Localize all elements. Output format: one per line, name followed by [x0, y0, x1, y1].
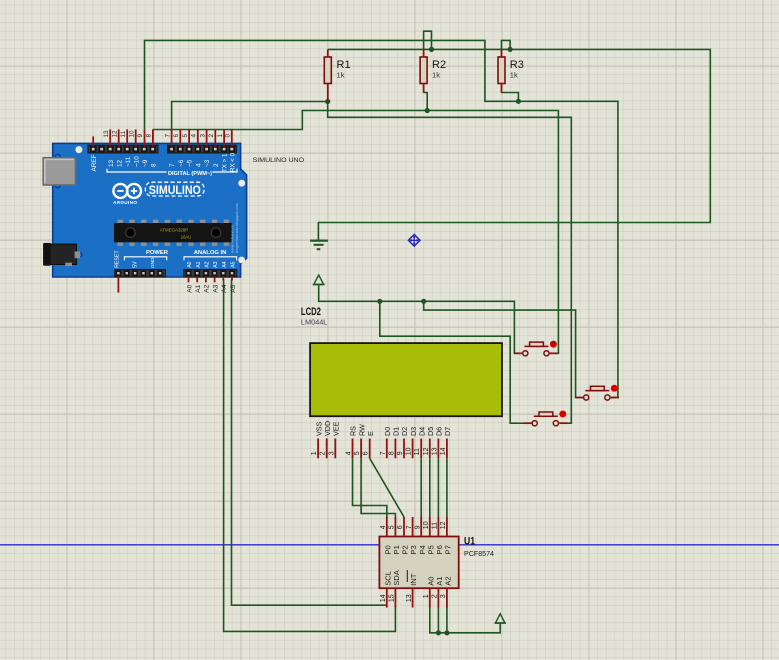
- wire: LCD D6 to U1 P6: [437, 458, 439, 517]
- power arrow (VCC) near U1: [495, 614, 506, 623]
- svg-text:11: 11: [120, 130, 127, 137]
- svg-text:R1: R1: [337, 59, 351, 71]
- svg-text:10: 10: [423, 521, 430, 529]
- svg-text:9: 9: [414, 525, 421, 529]
- svg-text:~5: ~5: [187, 159, 194, 167]
- wire: U1 A1 stub to net: [437, 608, 439, 633]
- svg-text:A1: A1: [196, 261, 202, 267]
- junction at R1 bottom: [325, 99, 330, 104]
- Arduino SIMULINO UNO board: [53, 143, 247, 277]
- svg-text:1k: 1k: [337, 70, 345, 79]
- power jack: [44, 243, 81, 266]
- wire: R2 bottom jog: [424, 93, 428, 111]
- SIMULINO title: [145, 182, 204, 197]
- DIGITAL (PWM~) bracket: [107, 168, 237, 177]
- svg-text:R2: R2: [432, 59, 446, 71]
- svg-text:6: 6: [363, 451, 370, 455]
- wire: pin 7 net (Arduino D7 to R1 bottom and button3 right): [172, 102, 328, 130]
- svg-text:13: 13: [431, 447, 438, 455]
- U1 bottom pin numbers: [380, 594, 447, 602]
- svg-text:PCF8574: PCF8574: [464, 549, 494, 558]
- svg-text:11: 11: [414, 448, 421, 455]
- junction at R2 bottom: [425, 108, 430, 113]
- svg-text:2: 2: [208, 134, 215, 138]
- wire: VCC drop to button2 left: [424, 301, 583, 397]
- svg-text:A0: A0: [186, 284, 193, 292]
- wire: R3 top hop: [502, 40, 511, 49]
- svg-text:VEE: VEE: [332, 421, 341, 436]
- junction at R3 bottom: [516, 99, 521, 104]
- svg-text:A3: A3: [213, 261, 219, 267]
- junction VCC/button3: [377, 299, 382, 304]
- svg-text:GND: GND: [150, 257, 155, 268]
- svg-text:P7: P7: [444, 545, 453, 554]
- svg-text:~3: ~3: [204, 159, 211, 167]
- svg-text:10: 10: [129, 130, 136, 138]
- push button 1 (top): [514, 341, 558, 356]
- svg-text:5V: 5V: [133, 261, 139, 268]
- svg-text:2: 2: [213, 163, 220, 167]
- svg-text:14: 14: [380, 594, 387, 602]
- svg-text:A3: A3: [212, 284, 219, 292]
- svg-text:1: 1: [217, 134, 224, 138]
- wire: LCD RS to U1 P0: [353, 458, 387, 517]
- board web text: [229, 203, 239, 253]
- svg-text:RESET: RESET: [114, 250, 120, 268]
- wire: ground net along resistor tops: [318, 49, 710, 240]
- digital pin numbers (black, above board): [103, 130, 232, 138]
- svg-text:8: 8: [146, 134, 153, 138]
- svg-text:16AU: 16AU: [181, 234, 191, 239]
- U1 chip body PCF8574: [379, 537, 458, 589]
- svg-text:SIMULINO UNO: SIMULINO UNO: [253, 157, 305, 164]
- svg-text:12: 12: [116, 159, 123, 167]
- wire: LCD RW to U1 P1: [361, 458, 395, 517]
- wire: pin 7 net continuation east: [328, 102, 572, 424]
- power arrow (VCC) near LCD: [313, 275, 325, 285]
- LCD pin names: [314, 421, 452, 436]
- resistor R3 1k: [498, 49, 524, 93]
- svg-text:~10: ~10: [133, 156, 140, 167]
- U1 bottom pin names SCL SDA INT A0 A1 A2: [383, 569, 452, 586]
- svg-text:blogembarcado.blogspot.com: blogembarcado.blogspot.com: [235, 203, 239, 253]
- svg-text:5: 5: [354, 451, 361, 455]
- svg-text:~11: ~11: [125, 156, 132, 167]
- svg-text:10: 10: [406, 447, 413, 455]
- digital pin numbers (white, on board): [108, 152, 237, 172]
- wire: LCD E to U1 P2 (diagonal): [370, 458, 404, 517]
- svg-text:2: 2: [432, 594, 439, 598]
- U1 bottom pin stubs: [387, 588, 447, 607]
- svg-text:8: 8: [150, 163, 157, 167]
- svg-text:ATMEGA328P: ATMEGA328P: [160, 228, 189, 233]
- svg-text:6: 6: [173, 134, 180, 138]
- analog pin stubs: [189, 277, 233, 283]
- digital pin stubs top: [93, 129, 232, 146]
- wire: A4 / SDA net: [224, 280, 396, 632]
- RESET pin stub: [117, 277, 119, 293]
- svg-text:13: 13: [108, 159, 115, 167]
- svg-text:5: 5: [182, 134, 189, 138]
- svg-text:4: 4: [191, 134, 198, 138]
- push button 2 (right): [575, 385, 619, 400]
- svg-text:A2: A2: [444, 577, 453, 586]
- svg-text:INT: INT: [409, 573, 418, 586]
- junction at R2 top: [429, 47, 434, 52]
- svg-text:AREF: AREF: [91, 154, 98, 171]
- svg-text:6: 6: [397, 525, 404, 529]
- svg-text:3: 3: [440, 594, 447, 598]
- svg-text:7: 7: [380, 451, 387, 455]
- svg-text:7: 7: [164, 134, 171, 138]
- svg-text:1: 1: [311, 451, 318, 455]
- svg-text:8: 8: [388, 451, 395, 455]
- svg-text:A4: A4: [222, 261, 228, 267]
- svg-text:4: 4: [380, 525, 387, 529]
- svg-text:11: 11: [432, 522, 439, 529]
- svg-text:2: 2: [320, 451, 327, 455]
- svg-text:A2: A2: [205, 261, 211, 267]
- wire: LCD D7 to U1 P7: [446, 458, 448, 517]
- svg-text:1: 1: [423, 594, 430, 598]
- sheet divider line: [0, 544, 779, 546]
- wire: VCC net from power arrow to button1 left: [319, 285, 523, 354]
- svg-text:4: 4: [195, 163, 202, 167]
- push button 3 (lower): [524, 411, 568, 426]
- U1 port names P0-P7: [383, 545, 452, 554]
- svg-text:U1: U1: [464, 536, 475, 548]
- ground symbol: [310, 241, 328, 250]
- analog pin labels below board: [186, 284, 237, 292]
- blue origin marker: [408, 235, 420, 247]
- svg-text:A2: A2: [204, 284, 211, 292]
- LCD LM044L screen: [310, 343, 502, 416]
- svg-text:A0: A0: [187, 261, 193, 267]
- svg-text:ANALOG IN: ANALOG IN: [194, 250, 227, 256]
- POWER header: [114, 250, 168, 277]
- wire: LCD D4 to U1 P4: [420, 458, 422, 517]
- svg-text:3: 3: [199, 134, 206, 138]
- LCD pin stubs: [318, 439, 447, 459]
- svg-text:15: 15: [389, 594, 396, 602]
- svg-text:12: 12: [112, 130, 119, 138]
- svg-text:7: 7: [406, 525, 413, 529]
- svg-text:0: 0: [225, 134, 232, 138]
- ATMEGA chip: [114, 220, 232, 246]
- resistor R1 1k: [324, 49, 350, 101]
- svg-text:TX > 1: TX > 1: [222, 153, 229, 172]
- wire: LCD D5 to U1 P5: [429, 458, 431, 517]
- junction U1 A2: [444, 630, 449, 635]
- svg-text:LM044L: LM044L: [301, 317, 328, 326]
- svg-text:A1: A1: [195, 284, 202, 292]
- svg-text:4: 4: [346, 451, 353, 455]
- svg-text:A5: A5: [231, 261, 237, 267]
- svg-text:A4: A4: [221, 284, 228, 292]
- wire: U1 A2 stub to net: [446, 608, 448, 633]
- wire: R2 top hop: [424, 31, 432, 49]
- wire: R3 bottom jog: [502, 93, 519, 102]
- digital header strip right (7-0): [168, 145, 237, 153]
- svg-text:1k: 1k: [510, 70, 518, 79]
- svg-text:DIGITAL (PWM~): DIGITAL (PWM~): [168, 171, 212, 177]
- junction U1 A1: [436, 630, 441, 635]
- SIMULINO logo: [113, 184, 141, 205]
- svg-text:12: 12: [440, 521, 447, 529]
- svg-text:13: 13: [406, 594, 413, 602]
- wire: U1 A0-A2 to power arrow: [430, 608, 500, 633]
- svg-text:9: 9: [397, 451, 404, 455]
- wire: VCC drop to button3 left: [380, 301, 532, 423]
- svg-text:A5: A5: [230, 284, 237, 292]
- U1 top pin numbers: [380, 521, 447, 529]
- svg-text:LCD2: LCD2: [301, 306, 321, 318]
- LCD pin numbers: [311, 447, 447, 455]
- svg-text:R3: R3: [510, 59, 524, 71]
- svg-text:14: 14: [440, 447, 447, 455]
- junction at R3 top: [508, 47, 513, 52]
- svg-text:1k: 1k: [432, 70, 440, 79]
- svg-text:9: 9: [137, 134, 144, 138]
- svg-text:RX < 0: RX < 0: [229, 152, 236, 172]
- wire: A5 / SCL net: [232, 280, 387, 606]
- svg-text:~9: ~9: [142, 159, 149, 167]
- svg-text:12: 12: [423, 447, 430, 455]
- svg-text:7: 7: [169, 163, 176, 167]
- svg-text:www.arduino.cc: www.arduino.cc: [229, 225, 234, 253]
- svg-text:5: 5: [389, 525, 396, 529]
- USB connector: [43, 158, 75, 185]
- svg-text:D7: D7: [443, 427, 452, 436]
- digital header strip left (AREF,GND,13-8): [88, 145, 158, 153]
- svg-text:SDA: SDA: [392, 569, 401, 586]
- svg-text:~6: ~6: [178, 159, 185, 167]
- svg-text:E: E: [366, 431, 375, 436]
- svg-text:SIMULINO: SIMULINO: [149, 185, 201, 197]
- U1 top pin stubs: [387, 517, 447, 537]
- wire: pin 8 net (Arduino D8 to R2 bottom and button1 right): [153, 111, 559, 354]
- svg-text:13: 13: [103, 130, 110, 138]
- svg-text:POWER: POWER: [146, 250, 169, 256]
- svg-text:ARDUINO: ARDUINO: [113, 200, 137, 205]
- ANALOG IN header: [184, 250, 237, 277]
- wire: pin 9 net (Arduino D9 to button2 right / R3 area), net A: [145, 40, 618, 397]
- svg-text:3: 3: [328, 451, 335, 455]
- resistor R2 1k: [420, 49, 446, 93]
- junction VCC/button2: [421, 299, 426, 304]
